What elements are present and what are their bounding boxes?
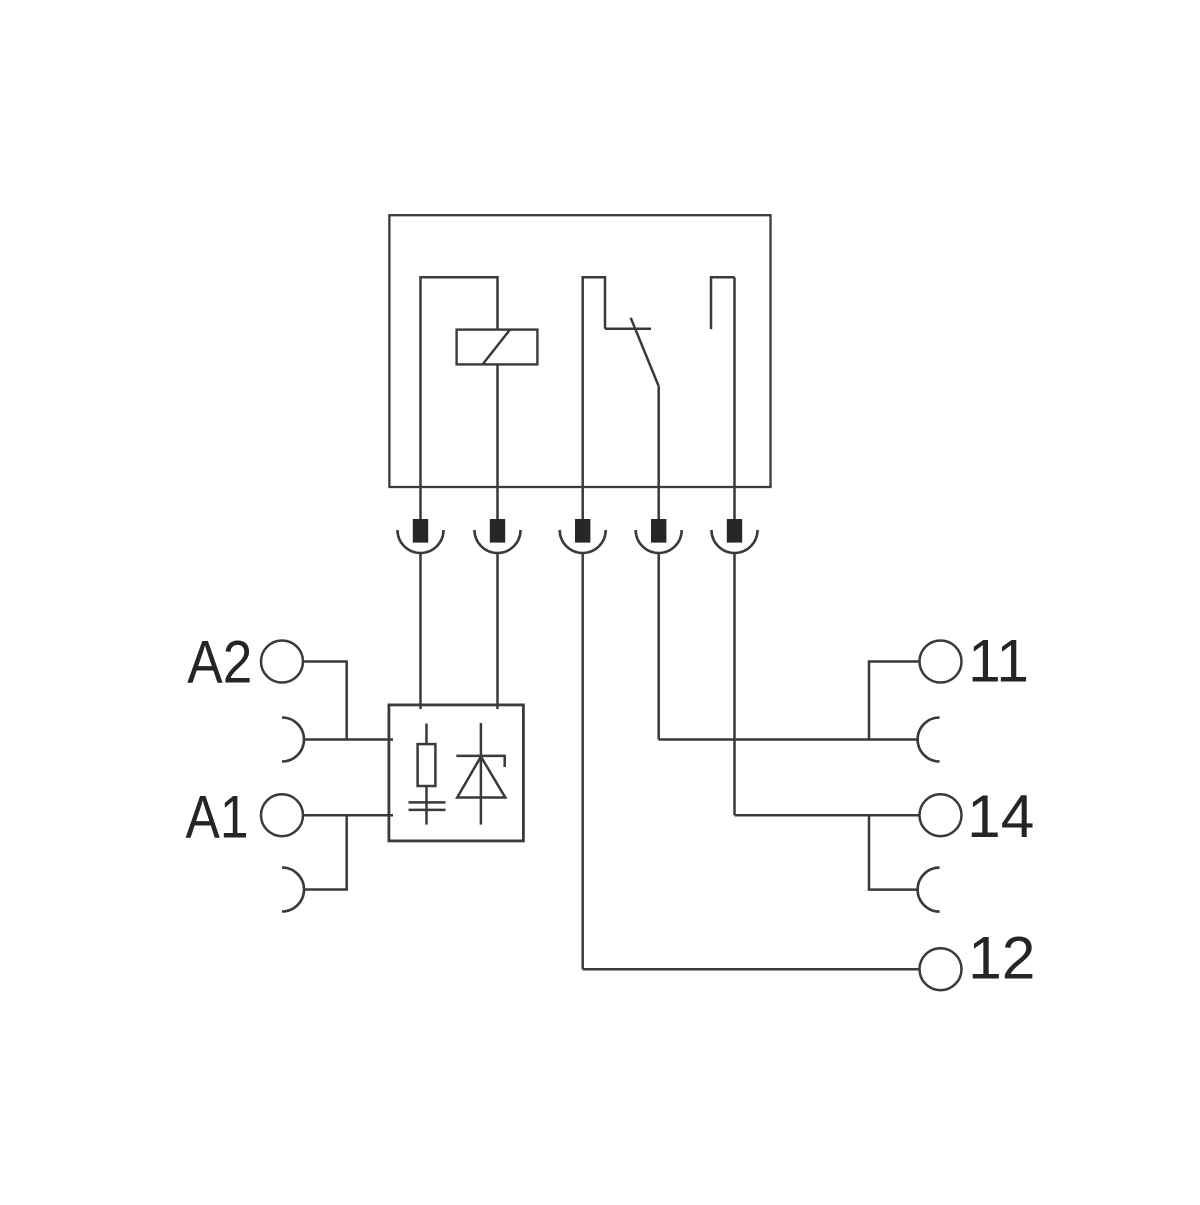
clamp arc 11 — [918, 718, 940, 762]
coil feed wire (connector 1 to coil top) — [421, 277, 498, 519]
clamp arc 14 — [918, 868, 940, 912]
coil actuator diagonal — [483, 330, 510, 365]
plug contact pin 1 blade — [413, 519, 428, 543]
wire connector 1 to suppressor box — [419, 553, 422, 709]
relay coil K1 — [457, 330, 538, 365]
plug contact pin 1 socket arc — [398, 530, 444, 553]
clamp arc A2 — [282, 718, 304, 762]
plug contact pin 2 blade — [490, 519, 505, 543]
wire connector 4 down to terminal 11 row — [657, 553, 660, 740]
diode V triangle — [457, 757, 505, 798]
wire connector 5 down to terminal 14 row — [733, 553, 736, 815]
capacitor C plate 2 — [409, 809, 446, 812]
wire 14 branch down to clamp — [869, 815, 918, 889]
wire connector 2 to suppressor box — [496, 553, 499, 709]
wire row 14 (connector 5 to circle 14) — [735, 814, 920, 817]
wire A1 branch down to clamp — [304, 815, 347, 889]
svg-text:14: 14 — [967, 783, 1034, 850]
wire A2 clamp to suppressor box — [304, 738, 393, 741]
svg-text:11: 11 — [968, 628, 1029, 695]
terminal circle 12 — [920, 948, 962, 990]
terminal circle A2 — [261, 641, 303, 683]
diode V cathode rail — [456, 756, 504, 767]
plug contact pin 4 blade — [651, 519, 666, 543]
resistor R — [418, 744, 436, 786]
clamp arc A1 — [282, 868, 304, 912]
plug contact pin 5 socket arc — [712, 530, 758, 553]
plug contact pin 5 blade — [727, 519, 742, 543]
coil return wire (coil bottom to connector 2) — [496, 364, 499, 519]
diode V lead — [480, 723, 483, 825]
common contact wire (blade to connector 4) — [657, 386, 660, 519]
terminal circle A1 — [261, 794, 303, 836]
NC branch feed wire (connector 3 up and over) — [583, 277, 605, 519]
suppressor module box — [389, 705, 524, 841]
terminal circle 11 — [920, 641, 962, 683]
NO fixed contact hook — [711, 277, 735, 329]
capacitor C plate 1 — [409, 801, 446, 804]
svg-text:A1: A1 — [186, 784, 249, 851]
wire row 11 (connector 4 to clamp 11) — [659, 738, 918, 741]
wire connector 3 down to terminal 12 row — [581, 553, 584, 969]
contact blade — [631, 318, 659, 386]
wire terminal 11 jog — [869, 662, 920, 740]
plug contact pin 2 socket arc — [475, 530, 521, 553]
resistor R lead top — [425, 724, 428, 745]
NC fixed contact bar — [605, 328, 651, 331]
svg-text:A2: A2 — [187, 628, 252, 695]
plug contact pin 4 socket arc — [636, 530, 682, 553]
wire A1 circle to suppressor box — [303, 814, 393, 817]
resistor to capacitor lead — [425, 786, 428, 825]
NO contact wire (to connector 5) — [733, 277, 736, 519]
plug contact pin 3 socket arc — [560, 530, 606, 553]
terminal circle 14 — [920, 794, 962, 836]
wire A2 circle to junction — [303, 662, 347, 740]
relay body outline — [389, 215, 770, 487]
wire row 12 (connector 3 to circle 12) — [583, 968, 920, 971]
svg-text:12: 12 — [968, 924, 1035, 991]
plug contact pin 3 blade — [575, 519, 590, 543]
